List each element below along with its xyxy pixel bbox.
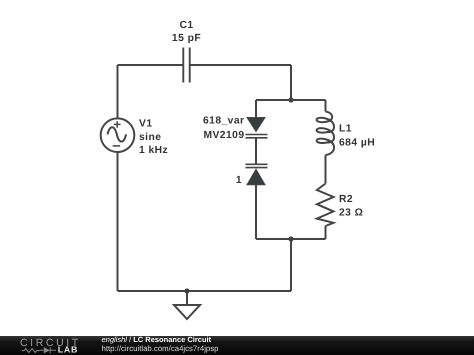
inductor L1 <box>317 112 334 156</box>
footer bar <box>0 336 474 355</box>
wire left vertical (V1 to bottom rail) <box>117 152 119 291</box>
svg-text:23 Ω: 23 Ω <box>339 208 363 219</box>
wire node B down to bottom rail <box>290 239 292 291</box>
wire top-left horizontal (C1 left lead) <box>118 64 184 66</box>
node junction dot ground <box>184 288 189 293</box>
wire right vertical (top wire down to node A) <box>290 65 292 100</box>
svg-text:MV2109: MV2109 <box>203 130 244 141</box>
svg-text:englishl / LC Resonance Circui: englishl / LC Resonance Circuit <box>102 335 212 344</box>
wire left vertical (top wire to V1) <box>117 65 119 118</box>
wire resistor bottom lead <box>325 226 327 239</box>
varactor D2 (1) <box>246 164 268 185</box>
svg-text:V1: V1 <box>139 118 153 129</box>
svg-text:C1: C1 <box>179 20 193 31</box>
voltage source V1 <box>101 118 135 152</box>
logo resistor zigzag <box>22 349 40 353</box>
capacitor C1 <box>183 48 189 83</box>
svg-text:1 kHz: 1 kHz <box>139 145 168 156</box>
svg-text:618_var: 618_var <box>203 116 245 127</box>
svg-text:L1: L1 <box>339 124 352 135</box>
wire inductor branch top lead <box>325 100 327 112</box>
wire varactor branch bottom lead <box>255 185 257 239</box>
wire upper rail of tank <box>256 99 326 101</box>
svg-text:684 µH: 684 µH <box>339 137 375 148</box>
wire lower rail of tank <box>256 238 326 240</box>
node A junction dot <box>288 97 293 102</box>
svg-text:LAB: LAB <box>58 345 78 355</box>
wire bottom rail <box>118 290 292 292</box>
node B junction dot <box>288 236 293 241</box>
logo diode symbol <box>40 347 56 353</box>
svg-text:R2: R2 <box>339 194 353 205</box>
svg-text:http://circuitlab.com/ca4jcs7r: http://circuitlab.com/ca4jcs7r4jpsp <box>102 344 220 353</box>
wire inductor to resistor <box>325 155 327 184</box>
resistor R2 <box>317 184 334 227</box>
svg-text:1: 1 <box>236 175 242 186</box>
ground <box>174 291 200 319</box>
svg-text:sine: sine <box>139 132 161 143</box>
varactor D1 618_var MV2109 <box>246 118 268 138</box>
wire top-right horizontal (C1 right lead) <box>190 64 291 66</box>
wire between varactors <box>255 138 257 165</box>
wire varactor branch top lead <box>255 100 257 118</box>
svg-text:15 pF: 15 pF <box>172 33 201 44</box>
